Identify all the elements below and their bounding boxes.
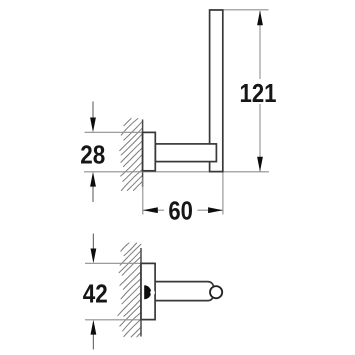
extension lines of 42 dim: [85, 262, 155, 264]
dim 60: [143, 209, 164, 211]
roll rod with rounded end: [150, 282, 214, 301]
extension line top of 28 dim: [85, 131, 156, 133]
svg-text:42: 42: [83, 279, 108, 309]
svg-text:121: 121: [240, 78, 277, 108]
extension line left of 60 dim: [142, 177, 144, 215]
support arm (covers bar left edge): [155, 144, 216, 162]
ball end: [210, 286, 222, 298]
wall face line (view 2): [140, 248, 142, 337]
wall bracket (view 2): [141, 263, 155, 319]
extension line bottom (shared 28 + 121): [84, 171, 269, 173]
dim 28 (arrows outside): [92, 102, 94, 127]
vertical bar (spare roll holder): [210, 10, 223, 172]
extension line top of 121 dim: [210, 9, 269, 11]
svg-text:60: 60: [168, 196, 193, 226]
dim 42 (arrows outside): [92, 234, 94, 258]
dim line 121: [259, 11, 261, 79]
wall face line (view 1): [142, 120, 144, 188]
wall hatching (view 1): [120, 119, 143, 191]
screw detail on bracket: [144, 285, 151, 299]
extension line right of 60 dim: [222, 172, 224, 215]
svg-text:28: 28: [80, 140, 105, 170]
wall hatching (view 2): [118, 243, 141, 337]
wall bracket (view 1): [143, 132, 156, 170]
